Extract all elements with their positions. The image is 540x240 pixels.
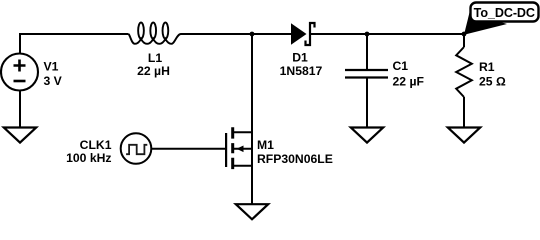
voltage source V1 xyxy=(1,54,38,91)
svg-text:D1: D1 xyxy=(292,51,308,65)
svg-text:3 V: 3 V xyxy=(44,74,63,88)
wire V1 to ground xyxy=(19,91,21,128)
wire CLK1 to gate xyxy=(151,148,226,150)
label V1 value xyxy=(44,60,63,89)
node B junction dot xyxy=(365,32,370,37)
wire node C to resistor xyxy=(463,34,465,47)
wire inductor to node A xyxy=(181,33,252,35)
svg-text:22 µF: 22 µF xyxy=(393,75,424,89)
label R1 value xyxy=(479,60,506,89)
svg-text:CLK1: CLK1 xyxy=(80,138,112,152)
ground under M1 xyxy=(236,204,268,219)
ground under C1 xyxy=(351,128,383,143)
svg-text:To_DC-DC: To_DC-DC xyxy=(474,6,535,20)
transistor M1 NMOS xyxy=(226,127,252,169)
svg-text:M1: M1 xyxy=(257,138,274,152)
wire node B to output flag xyxy=(367,33,464,35)
inductor L1 xyxy=(129,23,181,44)
ground under V1 xyxy=(4,128,36,143)
svg-text:R1: R1 xyxy=(479,60,495,74)
node C junction dot xyxy=(462,32,467,37)
svg-text:RFP30N06LE: RFP30N06LE xyxy=(257,152,333,166)
wire resistor to ground xyxy=(463,97,465,128)
svg-text:L1: L1 xyxy=(148,51,162,65)
svg-text:22 µH: 22 µH xyxy=(137,64,170,78)
wire node B down to capacitor xyxy=(366,34,368,70)
wire node A to diode anode xyxy=(252,33,291,35)
svg-text:1N5817: 1N5817 xyxy=(280,64,323,78)
label CLK1 value xyxy=(66,138,112,165)
svg-text:C1: C1 xyxy=(393,59,409,73)
label M1 value xyxy=(257,138,333,166)
wire capacitor to ground xyxy=(366,78,368,128)
svg-text:V1: V1 xyxy=(44,60,59,74)
capacitor C1 xyxy=(345,70,388,78)
port flag To_DC-DC xyxy=(464,3,539,35)
wire main top from V1 corner to inductor xyxy=(20,34,129,54)
svg-text:100 kHz: 100 kHz xyxy=(66,151,111,165)
label L1 value xyxy=(137,51,170,78)
wire node A through MOSFET drain-source to ground xyxy=(251,34,253,204)
svg-text:25 Ω: 25 Ω xyxy=(479,75,506,89)
node A junction dot xyxy=(250,32,255,37)
resistor R1 xyxy=(456,47,472,97)
label C1 value xyxy=(393,59,424,89)
wire diode cathode to node B xyxy=(310,33,367,35)
ground under R1 xyxy=(448,128,480,143)
clock source CLK1 xyxy=(121,133,152,164)
label D1 value xyxy=(280,51,323,79)
diode D1 (Schottky) xyxy=(291,23,315,45)
